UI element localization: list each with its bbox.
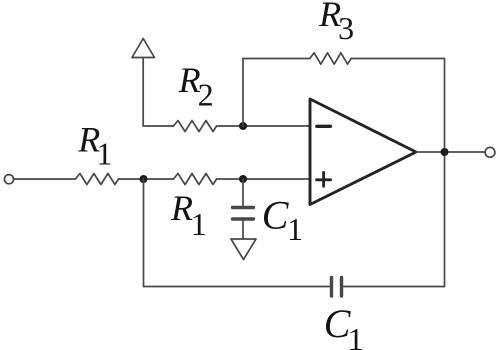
label R1 left [77,120,112,172]
op-amp U1 [310,99,416,205]
svg-text:3: 3 [338,10,354,46]
label C1 feedback [324,301,364,350]
svg-text:C: C [262,193,290,238]
label C1 shunt [262,193,303,247]
wire R2 to op-amp - [217,125,310,127]
wire top left to R3 [243,58,310,60]
resistor R1 (middle) [174,174,217,185]
output terminal [485,147,495,157]
bottom wire left segment [144,286,331,288]
resistor R2 [174,121,217,132]
svg-text:1: 1 [348,321,364,350]
svg-text:1: 1 [96,136,112,172]
wire arrow down [142,58,144,127]
wire node C up to R3 [242,59,244,127]
op-amp minus [317,125,331,128]
svg-text:1: 1 [191,206,207,242]
wire C1 to ground [242,221,244,239]
input terminal [4,175,13,184]
ground [231,239,256,260]
output junction [441,148,449,156]
output wire [416,151,485,153]
capacitor C1 (shunt) [233,206,254,209]
capacitor C1 (feedback) [330,278,333,297]
label R3 [318,0,354,46]
wire arrow corner to R2 [143,125,173,127]
wire R1 to node A [119,178,174,180]
wire node B down to C1 [242,179,244,206]
svg-text:2: 2 [198,77,214,113]
op-amp plus [317,173,331,187]
resistor R1 (left) [75,174,118,185]
node B junction [239,175,247,183]
label R2 [178,60,214,113]
wire R1 middle to op-amp + [217,178,310,180]
label R1 middle [170,188,207,242]
svg-text:1: 1 [287,211,303,247]
node A junction [140,175,148,183]
node C junction [239,122,247,130]
resistor R3 [310,53,351,64]
supply arrow [132,39,155,58]
wire R3 to right rail [351,58,445,60]
svg-text:R: R [170,188,193,228]
right rail wire down [444,59,446,287]
bottom wire right segment [343,286,445,288]
wire input to R1 [14,178,75,180]
left rail wire up to node A [143,179,145,287]
